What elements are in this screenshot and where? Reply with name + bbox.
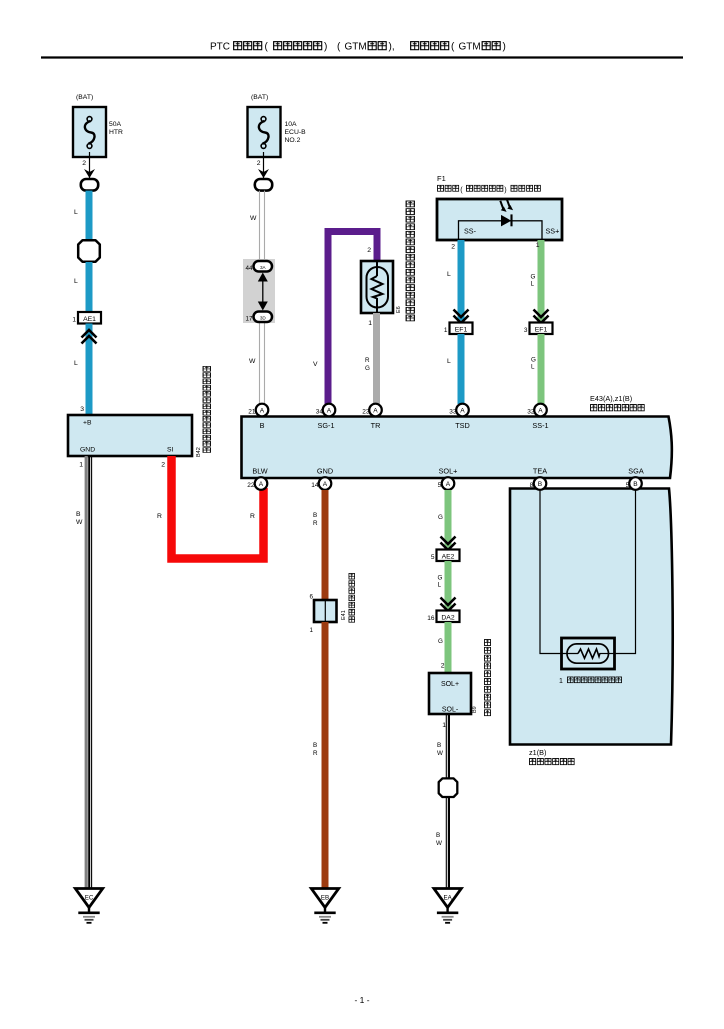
svg-text:L: L xyxy=(438,582,442,589)
svg-text:B: B xyxy=(633,481,638,488)
internal wire TEA to resistor xyxy=(540,490,561,654)
svg-text:SGA: SGA xyxy=(628,467,644,476)
pin 6 of junction connector 4 xyxy=(309,594,313,601)
svg-text:B: B xyxy=(437,742,441,749)
wire L (blue) octagon to connector AE1 xyxy=(74,262,89,312)
pin 22 BLW xyxy=(247,477,267,490)
wire V (violet) SG-1 to cooler thermistor pin 2 xyxy=(313,232,377,405)
svg-text:A: A xyxy=(446,481,451,488)
ground EB xyxy=(311,889,338,923)
wire BR (brown) junction connector to ground EB xyxy=(313,622,325,888)
svg-text:E6: E6 xyxy=(396,306,402,313)
chevron on AE2 xyxy=(441,537,456,551)
svg-text:3: 3 xyxy=(80,406,84,413)
svg-text:PTC: PTC xyxy=(210,42,230,53)
svg-text:GTM: GTM xyxy=(345,42,367,53)
pin 1 (GND) of blower assembly xyxy=(79,462,83,469)
pin 8 TEA xyxy=(530,477,547,490)
svg-text:A: A xyxy=(327,407,332,414)
svg-text:BLW: BLW xyxy=(252,467,267,476)
svg-text:L: L xyxy=(74,278,78,285)
svg-text:17: 17 xyxy=(245,316,253,323)
svg-text:A: A xyxy=(259,481,264,488)
svg-text:DA2: DA2 xyxy=(441,615,454,622)
pin 33 TSD xyxy=(449,404,469,417)
svg-text:A: A xyxy=(538,407,543,414)
svg-text:5: 5 xyxy=(431,554,435,561)
wire G (green) AE2 to DA2 xyxy=(438,561,449,611)
svg-text:SOL-: SOL- xyxy=(442,707,459,714)
svg-text:B: B xyxy=(76,511,81,518)
svg-text:3: 3 xyxy=(524,327,528,334)
wire G (green) DA2 to compressor SOL+ pin 2 xyxy=(438,622,448,673)
svg-text:A: A xyxy=(460,407,465,414)
svg-text:A: A xyxy=(373,407,378,414)
svg-text:B42: B42 xyxy=(196,447,202,457)
blower motor sub-assembly with heater (B42) xyxy=(68,415,192,456)
octagon inline connector (right column) xyxy=(439,778,458,797)
svg-text:z1(B): z1(B) xyxy=(529,748,546,757)
svg-text:B: B xyxy=(538,481,543,488)
svg-text:L: L xyxy=(531,364,535,371)
svg-text:SOL+: SOL+ xyxy=(439,467,458,476)
svg-text:EF1: EF1 xyxy=(535,327,548,334)
svg-text:23: 23 xyxy=(362,409,370,416)
svg-text:EF1: EF1 xyxy=(455,327,468,334)
wire W-B octagon to ground EA xyxy=(436,798,449,888)
internal wire SGA to resistor xyxy=(615,490,636,654)
sun sensor F1 box xyxy=(437,199,562,240)
wire L (blue) fuse to octagon connector xyxy=(74,191,89,242)
svg-text:L: L xyxy=(447,358,451,365)
svg-text:1: 1 xyxy=(79,462,83,469)
svg-text:B: B xyxy=(313,512,317,519)
pin 34 SG-1 xyxy=(316,404,336,417)
ground EC xyxy=(75,889,102,923)
junction connector no.4 (E41) xyxy=(314,600,337,622)
svg-text:1: 1 xyxy=(559,678,563,685)
junction connector designator E41 (rotated) xyxy=(341,610,347,620)
svg-text:SOL+: SOL+ xyxy=(441,681,459,688)
svg-text:R: R xyxy=(250,513,255,520)
title rule xyxy=(41,56,683,58)
svg-text:GND: GND xyxy=(80,447,95,454)
svg-text:ECU-B: ECU-B xyxy=(285,129,307,136)
no.1 cooler thermistor resistor element xyxy=(562,638,615,669)
chevron on DA2 xyxy=(441,598,456,612)
svg-text:R: R xyxy=(365,357,370,364)
svg-text:16: 16 xyxy=(427,615,435,622)
svg-text:E41: E41 xyxy=(341,610,347,620)
svg-text:SI: SI xyxy=(167,447,174,454)
fuse 50A HTR xyxy=(73,107,123,157)
svg-text:B9: B9 xyxy=(472,706,478,713)
pin 1 of cooler thermistor xyxy=(368,320,372,327)
svg-text:2: 2 xyxy=(451,244,455,251)
svg-text:SS+: SS+ xyxy=(546,227,560,236)
chevron on EF1 (blue) xyxy=(454,310,469,324)
svg-text:SS-: SS- xyxy=(464,227,477,236)
pin 2 of compressor solenoid xyxy=(441,663,445,670)
svg-text:32: 32 xyxy=(527,409,535,416)
svg-text:): ) xyxy=(504,185,506,194)
battery feed arrow and connector oval (left) xyxy=(81,152,98,191)
svg-text:3A: 3A xyxy=(260,265,267,270)
svg-text:SG-1: SG-1 xyxy=(317,421,334,430)
svg-text:B: B xyxy=(436,832,440,839)
svg-text:AE2: AE2 xyxy=(442,554,455,561)
svg-text:14: 14 xyxy=(311,482,319,489)
svg-text:EA: EA xyxy=(443,895,452,902)
A/C wire harness assembly z1(B) box xyxy=(510,489,673,745)
svg-text:A: A xyxy=(260,407,265,414)
wire G (green) EF1 to SS-1 pin 32 xyxy=(531,334,541,404)
svg-text:(BAT): (BAT) xyxy=(76,94,93,101)
pin 1 of sun sensor xyxy=(536,242,540,249)
svg-text:(BAT): (BAT) xyxy=(251,94,268,101)
svg-text:A: A xyxy=(323,481,328,488)
svg-text:),: ), xyxy=(389,42,395,53)
svg-text:G: G xyxy=(438,514,443,521)
title: PTC heater (w/ auto A/C) (GTM) diagram heading xyxy=(210,42,506,53)
svg-text:B: B xyxy=(313,742,317,749)
svg-text:W: W xyxy=(249,358,256,365)
wire G (green) SOL+ pin 5 to connector AE2 xyxy=(438,490,448,550)
svg-text:W: W xyxy=(250,215,257,222)
svg-text:TR: TR xyxy=(371,421,381,430)
svg-text:E43(A),z1(B): E43(A),z1(B) xyxy=(590,394,632,403)
svg-text:GTM: GTM xyxy=(459,42,481,53)
svg-text:1: 1 xyxy=(368,320,372,327)
photodiode symbol (sun sensor) xyxy=(500,199,513,226)
svg-text:R: R xyxy=(313,750,318,757)
pin 2 of cooler thermistor xyxy=(367,247,371,254)
wire W (white) junction to amplifier B pin 21 xyxy=(249,358,256,365)
svg-text:2: 2 xyxy=(161,462,165,469)
svg-text:TEA: TEA xyxy=(533,467,547,476)
compressor assembly with pulley (SOL) xyxy=(429,673,471,714)
junction arrow between 3A and 3D xyxy=(258,273,268,311)
chevron on EF1 (green) xyxy=(534,310,549,324)
compressor name vertical text xyxy=(484,639,490,715)
svg-text:L: L xyxy=(531,281,535,288)
svg-text:AE1: AE1 xyxy=(83,316,96,323)
pin 1 of compressor solenoid xyxy=(442,722,446,729)
connector EF1 pin 3 (green wire) xyxy=(524,323,553,335)
A/C amplifier assembly E43(A),z1(B) label xyxy=(590,394,644,411)
svg-text:G: G xyxy=(531,357,536,364)
svg-text:44: 44 xyxy=(245,265,253,272)
wire G (green) sun sensor SS+ to connector EF1 xyxy=(531,240,542,323)
svg-text:L: L xyxy=(447,271,451,278)
junction connector name vertical text xyxy=(349,573,355,622)
resistor label: 1 cooler thermistor xyxy=(559,677,622,685)
svg-text:1: 1 xyxy=(442,722,446,729)
svg-text:1: 1 xyxy=(536,242,540,249)
pin 21 B xyxy=(248,404,268,417)
svg-text:1: 1 xyxy=(72,316,76,323)
svg-text:V: V xyxy=(313,361,318,368)
svg-text:5: 5 xyxy=(626,482,630,489)
svg-text:34: 34 xyxy=(316,409,324,416)
connector EF1 pin 1 (blue wire) xyxy=(444,323,473,335)
svg-text:HTR: HTR xyxy=(109,129,123,136)
svg-text:L: L xyxy=(74,360,78,367)
octagon inline connector (left column) xyxy=(78,240,100,262)
compressor designator B9 (rotated) xyxy=(472,706,478,713)
connector AE1 pin 1 xyxy=(72,312,101,324)
svg-text:1: 1 xyxy=(309,627,313,634)
svg-text:8: 8 xyxy=(530,482,534,489)
page number xyxy=(354,995,369,1005)
battery feed arrow and connector oval (middle) xyxy=(255,152,272,191)
svg-text:): ) xyxy=(503,42,506,53)
svg-text:B: B xyxy=(260,421,265,430)
svg-text:2: 2 xyxy=(82,160,86,167)
svg-text:3D: 3D xyxy=(260,316,267,321)
blower assembly designator B42 (rotated) xyxy=(196,447,202,457)
svg-text:L: L xyxy=(74,209,78,216)
svg-text:10A: 10A xyxy=(285,121,298,128)
wire L (blue) EF1 to TSD pin 33 xyxy=(447,334,461,404)
svg-text:G: G xyxy=(438,638,443,645)
svg-text:GND: GND xyxy=(317,467,333,476)
svg-text:NO.2: NO.2 xyxy=(285,137,301,144)
svg-text:2: 2 xyxy=(441,663,445,670)
wire L (blue) AE1 to blower +B pin 3 xyxy=(86,324,93,416)
svg-text:EB: EB xyxy=(321,895,329,902)
junction oval 3D pin 17 xyxy=(245,312,272,323)
svg-text:33: 33 xyxy=(449,409,457,416)
svg-text:5: 5 xyxy=(438,482,442,489)
pin 23 TR xyxy=(362,404,382,417)
wire L (blue) sun sensor SS- to connector EF1 xyxy=(447,240,461,323)
svg-text:1: 1 xyxy=(444,327,448,334)
wire W (white) fuse to junction connector xyxy=(250,191,265,404)
pin 1 of junction connector 4 xyxy=(309,627,313,634)
blower assembly name vertical text xyxy=(203,366,210,452)
svg-text:): ) xyxy=(324,42,327,53)
wire BR (brown) GND pin 14 to junction connector xyxy=(313,490,325,600)
svg-text:22: 22 xyxy=(247,482,255,489)
svg-text:W: W xyxy=(437,750,443,757)
connector DA2 pin 16 xyxy=(427,611,459,623)
pin 2 (SI) of blower assembly xyxy=(161,462,165,469)
chevron (connector direction) on AE1 xyxy=(82,330,97,344)
svg-text:R: R xyxy=(313,520,318,527)
A/C amplifier assembly box xyxy=(242,417,672,479)
wire R (red) blower SI to A/C amplifier BLW pin 22 xyxy=(157,456,264,559)
svg-text:G: G xyxy=(531,274,536,281)
pin 2 of sun sensor xyxy=(451,244,455,251)
(BAT) label middle xyxy=(251,94,268,101)
svg-text:21: 21 xyxy=(248,409,256,416)
svg-text:50A: 50A xyxy=(109,121,122,128)
thermistor name vertical text xyxy=(406,201,414,321)
junction connector block (gray) xyxy=(243,259,275,323)
svg-text:+B: +B xyxy=(83,420,92,427)
pin 2 of fuse 10A xyxy=(257,160,261,167)
wire GR (gray) thermistor pin 1 to TR pin 23 xyxy=(365,313,377,404)
pin 32 SS-1 xyxy=(527,404,547,417)
svg-text:- 1 -: - 1 - xyxy=(354,995,369,1005)
(BAT) label left xyxy=(76,94,93,101)
pin 5 SGA xyxy=(626,477,642,490)
connector AE2 pin 5 xyxy=(431,550,460,562)
svg-text:2: 2 xyxy=(257,160,261,167)
pin 5 SOL+ xyxy=(438,477,455,490)
svg-text:W: W xyxy=(76,519,83,526)
svg-text:F1: F1 xyxy=(437,174,446,183)
ground EA xyxy=(434,889,461,923)
pin 3 (+B) of blower assembly xyxy=(80,406,84,413)
svg-text:W: W xyxy=(436,840,442,847)
junction oval 3A pin 44 xyxy=(245,261,272,272)
sun sensor F1 heading xyxy=(437,174,540,194)
svg-text:SS-1: SS-1 xyxy=(532,421,548,430)
svg-text:EC: EC xyxy=(85,895,94,902)
wire B-W blower GND to ground EC xyxy=(76,456,92,888)
fuse 10A ECU-B NO.2 xyxy=(248,107,307,157)
svg-text:2: 2 xyxy=(367,247,371,254)
svg-text:TSD: TSD xyxy=(455,421,470,430)
svg-text:R: R xyxy=(157,513,162,520)
thermistor designator E6 (rotated) xyxy=(396,306,402,313)
z1(B) harness label xyxy=(529,748,574,765)
wire W-B compressor to octagon connector xyxy=(437,714,449,779)
svg-text:G: G xyxy=(365,365,370,372)
pin 2 of fuse 50A HTR xyxy=(82,160,86,167)
svg-text:G: G xyxy=(438,575,443,582)
cooler thermistor (room temperature sensor) E6 xyxy=(361,261,393,313)
pin 14 GND xyxy=(311,477,331,490)
